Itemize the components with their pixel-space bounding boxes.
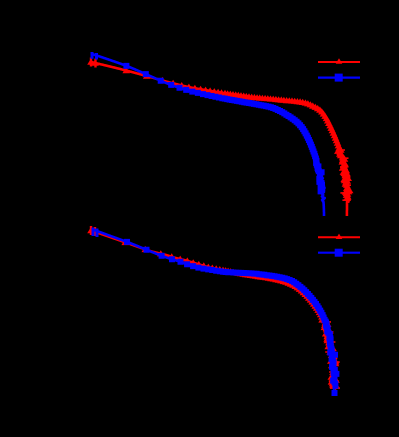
bottom plot: red curve <box>91 231 337 392</box>
top plot: blue error ticks <box>314 168 325 188</box>
bottom plot: blue error ticks <box>327 336 338 378</box>
bottom plot: blue end marker <box>332 390 338 396</box>
top plot: red first-point error bar <box>91 58 96 68</box>
top plot: red curve <box>91 62 350 216</box>
bottom legend: red entry <box>318 236 360 238</box>
top plot: blue square markers <box>123 63 325 195</box>
top plot: red triangle markers <box>87 59 353 200</box>
top plot: blue first-point error bars <box>92 52 97 60</box>
bottom plot: red triangle markers <box>87 227 340 388</box>
bottom plot: red error ticks <box>321 322 340 388</box>
bottom legend: blue entry <box>318 252 360 254</box>
bottom plot: blue curve <box>93 230 336 393</box>
top legend: blue entry <box>318 76 360 78</box>
bottom plot: red first-point error bar <box>91 226 95 236</box>
bottom plot: blue first-point error bars <box>93 228 97 238</box>
top plot: red error ticks <box>337 150 351 200</box>
top plot: blue curve <box>92 54 325 216</box>
top legend: red entry <box>318 61 360 63</box>
bottom plot: blue square markers <box>124 239 339 389</box>
